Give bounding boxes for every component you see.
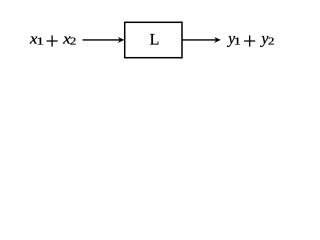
input arrow wire [83,39,121,41]
output label y1+y2 [226,31,274,48]
output arrow wire [182,39,216,41]
svg-text:2: 2 [70,37,76,48]
svg-text:1: 1 [37,37,44,48]
output arrowhead [214,37,221,43]
svg-text:L: L [150,32,160,49]
svg-text:2: 2 [268,37,274,48]
block L box [125,22,182,57]
input label x1+x2 [29,32,77,48]
input arrowhead [118,37,125,43]
svg-text:1: 1 [234,37,241,48]
